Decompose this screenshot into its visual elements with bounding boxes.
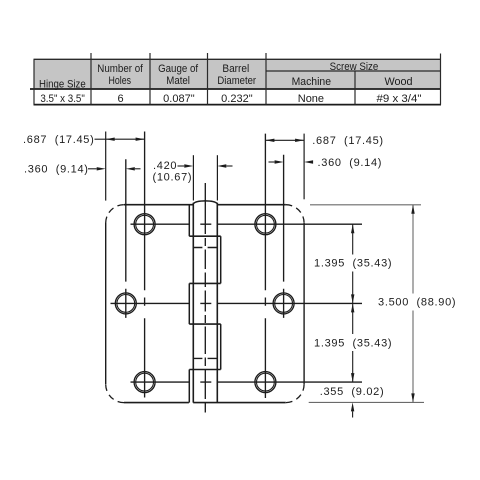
svg-text:3.500 (88.90): 3.500 (88.90) [378, 297, 456, 309]
hole bottom-right outer [255, 372, 276, 393]
dimension .360 left arrow right [126, 167, 135, 170]
extension line hinge bottom right [309, 401, 424, 403]
dimension 3.500 arrow down [411, 393, 414, 402]
dimension .420 arrow left [184, 164, 193, 167]
knuckle wrap edge segment 2 [220, 236, 222, 283]
hole bottom-right inner [257, 373, 275, 391]
dimension .687 right arrow left [265, 139, 274, 142]
svg-text:Hinge Size: Hinge Size [39, 78, 86, 90]
dimension .360 right arrow left tail [269, 161, 275, 163]
knuckle joint line 3 [189, 323, 220, 325]
extension line barrel right [216, 155, 218, 200]
hole column center line left-inner [125, 159, 127, 318]
knuckle joint line 2 [189, 282, 220, 284]
dimension .687 left arrow right [136, 138, 145, 141]
extension line hinge top right [310, 204, 421, 206]
hinge top edge right segment [217, 204, 285, 206]
svg-text:Machine: Machine [292, 76, 331, 88]
dimension .687 left arrow left [106, 138, 115, 141]
hidden joint dash upper [194, 247, 217, 249]
table divider barrel/screw [265, 53, 267, 105]
dimension .420 arrow right tail [226, 165, 232, 167]
dimension .687 left line [106, 138, 145, 140]
hinge top edge left segment [124, 204, 193, 206]
hinge left edge [105, 223, 107, 384]
table left border [33, 59, 35, 104]
table header fill [34, 59, 441, 89]
leaf cutout edge segment 1 [188, 205, 190, 237]
barrel dome cap [193, 201, 217, 204]
svg-text:Diameter: Diameter [217, 75, 256, 87]
corner arc bottom-left (dashed) [106, 384, 124, 402]
hole bottom-left outer [134, 372, 155, 393]
hole top-left outer [134, 214, 155, 235]
corner arc top-right (dashed) [286, 205, 304, 223]
dimension .687 left leader [95, 138, 106, 140]
hole mid-right inner [275, 295, 293, 313]
table right border [440, 54, 442, 105]
svg-text:.687 (17.45): .687 (17.45) [23, 134, 94, 146]
dimension 1.395 upper line top [352, 224, 354, 254]
svg-text:Number of: Number of [97, 63, 143, 75]
table divider machine/wood [354, 71, 356, 105]
knuckle joint line 4 [189, 369, 220, 371]
svg-text:Holes: Holes [109, 75, 132, 87]
dimension .360 left leader [88, 168, 97, 170]
barrel right edge [216, 203, 218, 403]
svg-text:Wood: Wood [384, 76, 412, 88]
table divider gauge/barrel [207, 53, 209, 105]
svg-text:None: None [298, 93, 324, 105]
hole top-right inner [257, 215, 275, 233]
hole column center line left-outer [144, 132, 146, 398]
dimension 3.500 arrow up [411, 205, 414, 214]
knuckle joint line 1 [189, 235, 220, 237]
svg-text:1.395 (35.43): 1.395 (35.43) [314, 337, 392, 349]
hole top-right outer [255, 214, 276, 235]
hole row center line middle [111, 302, 363, 304]
svg-text:Matel: Matel [166, 75, 190, 87]
dimension .420 arrow left tail [178, 165, 185, 167]
svg-text:.360 (9.14): .360 (9.14) [24, 164, 89, 176]
table bottom border [34, 104, 442, 106]
hole row center line bottom [131, 381, 363, 383]
dimension 1.395 lower line top [352, 303, 354, 334]
dimension 3.500 line bottom [412, 311, 414, 403]
hinge right edge [303, 223, 305, 384]
hole mid-left inner [117, 295, 135, 313]
dimension .360 right arrow left [275, 160, 284, 163]
pin center line [204, 183, 206, 413]
dimension .420 arrow right [217, 164, 226, 167]
screw size underline [266, 70, 441, 72]
extension line hinge right edge [303, 134, 305, 200]
extension line hinge left edge [105, 132, 107, 201]
hole column center line right-inner [283, 155, 285, 318]
dimension .687 right arrow right [295, 139, 304, 142]
corner arc top-left (dashed) [106, 205, 124, 223]
corner arc bottom-right (dashed) [286, 384, 304, 402]
hole mid-right outer [273, 293, 294, 314]
leaf cutout edge segment 5 [188, 370, 190, 403]
hinge bottom edge left segment [124, 402, 189, 404]
dimension 1.395 upper arrow down [351, 294, 354, 303]
svg-text:(10.67): (10.67) [153, 171, 193, 183]
dimension .355 arrow tail [352, 411, 354, 417]
dimension 1.395 lower line bottom [352, 351, 354, 382]
svg-text:0.232": 0.232" [221, 93, 253, 105]
svg-text:Gauge of: Gauge of [158, 63, 199, 75]
hinge bottom edge right segment [193, 402, 286, 404]
dimension 3.500 line top [412, 205, 414, 294]
dimension .360 left arrow right tail [135, 168, 141, 170]
hole column center line right-outer [264, 134, 266, 398]
barrel left edge [192, 203, 194, 403]
svg-text:1.395 (35.43): 1.395 (35.43) [314, 258, 392, 270]
dimension 1.395 upper line bottom [352, 272, 354, 304]
dimension .360 left arrow left [97, 167, 106, 170]
hole bottom-left inner [136, 373, 154, 391]
hidden joint dash lower [194, 357, 217, 359]
svg-text:Barrel: Barrel [222, 63, 249, 75]
svg-text:3.5" x 3.5": 3.5" x 3.5" [40, 93, 85, 105]
svg-text:.687 (17.45): .687 (17.45) [312, 135, 383, 147]
hole mid-left outer [115, 293, 136, 314]
table divider holes/gauge [149, 53, 151, 105]
svg-text:#9 x 3/4": #9 x 3/4" [377, 93, 422, 105]
table top border [34, 58, 442, 60]
svg-text:Screw Size: Screw Size [330, 61, 379, 73]
dimension .687 right line [265, 139, 304, 141]
hole row center line top [131, 223, 363, 225]
svg-text:6: 6 [117, 93, 123, 105]
dimension 1.395 lower arrow up [351, 303, 354, 312]
leaf cutout edge segment 3 [188, 283, 190, 324]
table divider hinge/holes [90, 53, 92, 105]
dimension .360 right arrow right [304, 160, 313, 163]
extension line barrel left [192, 155, 194, 200]
hole top-left inner [136, 215, 154, 233]
dimension .355 arrow up [351, 402, 354, 411]
svg-text:.360 (9.14): .360 (9.14) [318, 157, 383, 169]
dimension 1.395 lower arrow down [351, 373, 354, 382]
dimension 1.395 upper arrow up [351, 224, 354, 233]
table header underline [30, 88, 441, 90]
svg-text:.355 (9.02): .355 (9.02) [320, 386, 385, 398]
knuckle wrap edge segment 4 [220, 324, 222, 369]
svg-text:0.087": 0.087" [163, 93, 195, 105]
